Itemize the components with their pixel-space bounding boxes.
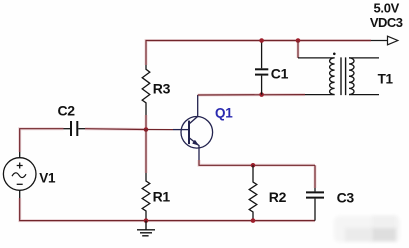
source V1 <box>3 152 36 198</box>
wire halo (soft red glow under wires) <box>20 41 371 221</box>
junction dot R1 / ground <box>144 218 149 223</box>
wire: node A down to R1 <box>145 130 147 174</box>
resistor R2 <box>249 165 257 220</box>
wire: C2 right plate to node A <box>85 128 146 131</box>
svg-text:R2: R2 <box>269 189 287 205</box>
capacitor C2 <box>64 121 86 136</box>
wire: R3 bottom to node A <box>145 115 147 130</box>
wire: top rail from R3 top to arrow <box>146 41 371 66</box>
capacitor C3 <box>306 188 324 221</box>
connector arrow head <box>388 36 398 45</box>
wire: base wire node A to Q1 <box>146 129 173 131</box>
junction dot R2 bottom <box>251 218 256 223</box>
connector arrow lead <box>371 40 388 42</box>
junction dot C1 bottom <box>259 92 264 97</box>
svg-text:R1: R1 <box>153 188 171 204</box>
junction dot transformer branch <box>296 38 301 43</box>
svg-text:C1: C1 <box>271 65 289 81</box>
transistor Q1 <box>173 95 213 160</box>
svg-text:Q1: Q1 <box>215 105 233 120</box>
resistor R3 <box>142 65 150 115</box>
wire: collector to transformer primary bottom <box>198 94 305 96</box>
junction dot C1 top <box>259 38 264 43</box>
wire: emitter to RC network <box>199 160 315 165</box>
svg-text:T1: T1 <box>378 71 394 86</box>
capacitor C1 <box>255 41 268 95</box>
svg-text:VDC3: VDC3 <box>370 15 403 30</box>
wire: left loop top (C2 to V1) <box>20 129 64 152</box>
junction dot R2 top <box>251 163 256 168</box>
wire: C3 top lead <box>314 165 316 188</box>
resistor R1 <box>142 173 150 221</box>
svg-text:V1: V1 <box>39 170 56 185</box>
svg-text:5.0V: 5.0V <box>373 0 399 15</box>
wire: top rail down to primary top <box>297 41 299 58</box>
node A junction dot <box>144 127 149 132</box>
svg-text:R3: R3 <box>153 81 171 97</box>
svg-text:C3: C3 <box>337 190 355 206</box>
transformer T1 <box>298 53 379 96</box>
svg-text:C2: C2 <box>58 103 76 119</box>
wire: V1 bottom to bottom rail <box>20 198 315 221</box>
ground <box>137 221 155 236</box>
watermark blur bottom right <box>334 216 400 242</box>
